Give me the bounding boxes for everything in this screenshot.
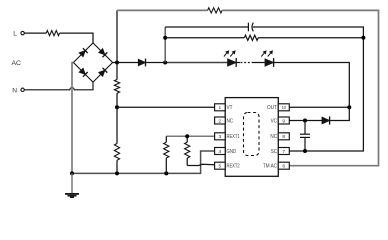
svg-text:N: N bbox=[12, 88, 17, 95]
svg-text:AC: AC bbox=[12, 60, 22, 67]
svg-text:VC: VC bbox=[271, 118, 278, 124]
wire R7 to pin5 REXT2 bbox=[187, 164, 214, 165]
junction dot bridge+ bbox=[115, 61, 119, 65]
pin box 10 bbox=[278, 104, 289, 111]
junction dot RC join bbox=[361, 36, 365, 40]
svg-text:10: 10 bbox=[282, 105, 286, 111]
wire LED1 to dashes bbox=[236, 62, 240, 64]
R4 rail left bbox=[165, 37, 244, 39]
dashed wire (more LEDs) bbox=[241, 62, 254, 64]
wire junction to LED1 bbox=[165, 62, 227, 64]
wire LED2 to drop bbox=[274, 63, 350, 108]
wire pin3 REXT1 bbox=[166, 135, 214, 137]
top rail right + drop to pin6 (TM AC) bbox=[222, 10, 378, 165]
ground rail bbox=[72, 151, 215, 173]
wire pin9 VC bbox=[289, 120, 322, 122]
svg-text:4: 4 bbox=[219, 149, 222, 155]
R4 rail right bbox=[258, 37, 363, 39]
junction dot cap-SC bbox=[303, 149, 307, 153]
junction dot OUT bbox=[347, 105, 351, 109]
vertical bridge+ to top rail bbox=[116, 10, 118, 62]
LED2 arrows bbox=[261, 53, 264, 56]
svg-text:9: 9 bbox=[282, 118, 285, 124]
wire D6 to OUT node bbox=[330, 107, 350, 120]
junction dot REXT1-R7 bbox=[185, 134, 189, 138]
IC internal dashed block bbox=[244, 113, 260, 156]
wire bridge left corner to ground rail bbox=[72, 63, 73, 174]
pin box 5 bbox=[215, 162, 226, 169]
svg-text:SC: SC bbox=[271, 149, 277, 155]
svg-text:L: L bbox=[13, 31, 17, 38]
resistor R7 (REXT1-REXT2) bbox=[186, 136, 188, 142]
bridge diode D3 (left->bottom) bbox=[79, 68, 85, 74]
junction dot VC-cap bbox=[303, 119, 307, 123]
bridge diode D2 (top->right) bbox=[99, 49, 105, 55]
bridge diode D4 (bottom->right) bbox=[99, 70, 105, 76]
wire R3 to rail bbox=[116, 160, 118, 173]
wire bridge right corner bbox=[113, 62, 138, 64]
pin box 6 bbox=[278, 162, 289, 169]
wire L to R1 bbox=[24, 32, 46, 34]
pin box 8 bbox=[278, 133, 289, 140]
IC U1 body bbox=[225, 98, 278, 177]
terminal N bbox=[21, 88, 24, 91]
LED LED2 bbox=[265, 59, 274, 66]
wire VT down to R3 bbox=[116, 107, 118, 143]
resistor R3 (VT to gnd) bbox=[114, 144, 119, 161]
pin box 2 bbox=[215, 117, 226, 124]
junction dot R4 rail bbox=[163, 36, 167, 40]
wire N with crossover hop bbox=[24, 82, 93, 90]
svg-text:NC: NC bbox=[227, 118, 234, 124]
pin box 7 bbox=[278, 148, 289, 155]
resistor R4 bbox=[244, 35, 258, 40]
svg-text:2: 2 bbox=[219, 118, 222, 124]
capacitor C1 bbox=[247, 23, 249, 32]
svg-text:GND: GND bbox=[227, 149, 237, 155]
svg-text:TM AC: TM AC bbox=[263, 164, 277, 170]
svg-text:3: 3 bbox=[219, 134, 222, 140]
junction dot rail-gnd bbox=[70, 171, 74, 175]
cap rail left bbox=[165, 26, 248, 28]
bridge diamond wires bbox=[73, 43, 112, 82]
resistor R6 (REXT1-gnd) bbox=[165, 136, 167, 142]
wire R2 stubs bbox=[116, 63, 118, 80]
terminal L bbox=[21, 31, 24, 34]
wire VT to pin1 bbox=[117, 106, 215, 108]
LED LED1 bbox=[228, 59, 237, 66]
vertical junction to cap rail bbox=[164, 27, 166, 63]
svg-text:REXT2: REXT2 bbox=[227, 164, 240, 170]
svg-text:6: 6 bbox=[282, 164, 285, 170]
junction dot rail-R2bottom bbox=[115, 171, 119, 175]
resistor R5 (top) bbox=[208, 8, 223, 13]
svg-text:5: 5 bbox=[219, 164, 222, 170]
junction dot LED feed bbox=[163, 61, 167, 65]
wire D5 to junction bbox=[145, 62, 165, 64]
resistor R1 bbox=[46, 31, 59, 36]
bridge diode D1 (left->top) bbox=[79, 51, 85, 57]
wire pin10 OUT bbox=[289, 106, 349, 108]
LED1 arrows bbox=[224, 53, 227, 56]
svg-text:VT: VT bbox=[227, 105, 234, 111]
junction dot VT bbox=[115, 105, 119, 109]
pin box 9 bbox=[278, 117, 289, 124]
svg-text:NC: NC bbox=[270, 134, 277, 140]
pin box 3 bbox=[215, 133, 226, 140]
resistor R2 (bridge+ to VT) bbox=[114, 80, 119, 94]
pin box 4 bbox=[215, 148, 226, 155]
diode D6 bbox=[322, 117, 330, 124]
top rail bbox=[117, 9, 208, 11]
pin box 1 bbox=[215, 104, 226, 111]
cap rail right bbox=[253, 27, 364, 38]
svg-text:8: 8 bbox=[282, 134, 285, 140]
svg-text:OUT: OUT bbox=[267, 105, 278, 111]
wire dashes to LED2 bbox=[253, 62, 265, 64]
svg-text:1: 1 bbox=[219, 105, 222, 111]
diode D5 bbox=[138, 59, 145, 65]
vertical RC join to pin7 (SC) bbox=[289, 38, 363, 151]
svg-text:REXT1: REXT1 bbox=[227, 134, 240, 140]
ground symbol bbox=[71, 173, 73, 193]
svg-text:7: 7 bbox=[282, 149, 285, 155]
wire R1 to bridge top bbox=[60, 33, 93, 43]
junction dot rail-REXT1 bbox=[164, 171, 168, 175]
capacitor C2 bbox=[304, 121, 306, 135]
